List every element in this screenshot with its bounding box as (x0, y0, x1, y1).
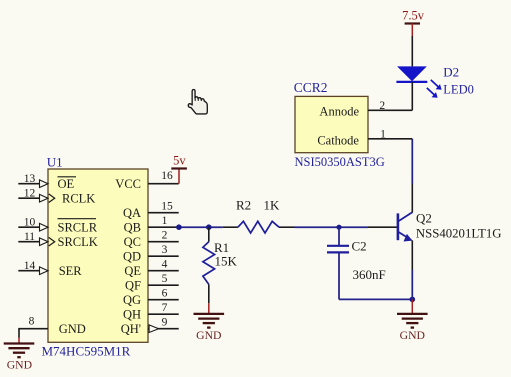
svg-text:Cathode: Cathode (317, 134, 359, 148)
svg-text:1: 1 (380, 129, 386, 141)
Q2 designator label (416, 210, 432, 225)
U1 pin 8 GND (18, 315, 85, 336)
svg-text:15: 15 (161, 201, 173, 213)
svg-text:QD: QD (123, 250, 141, 264)
svg-text:QG: QG (123, 293, 141, 307)
U1 pin 11 SRCLK (clock input) (18, 231, 97, 249)
power port 5v at U1 VCC (171, 153, 187, 183)
svg-text:QA: QA (123, 206, 141, 220)
svg-text:3: 3 (162, 244, 168, 256)
resistor R2 (223, 221, 295, 233)
svg-text:QH: QH (123, 308, 141, 322)
svg-text:9: 9 (162, 317, 168, 329)
transistor Q2 (NPN) (368, 184, 412, 271)
U1 pin 6 QG (123, 288, 179, 308)
svg-text:R2: R2 (236, 198, 251, 213)
svg-text:VCC: VCC (115, 177, 141, 191)
U1 reference designator (47, 154, 63, 169)
svg-text:SRCLK: SRCLK (58, 235, 98, 249)
svg-text:8: 8 (29, 315, 35, 327)
svg-text:QH': QH' (121, 322, 141, 336)
svg-text:2: 2 (162, 230, 168, 242)
wire C2 bottom to Q2 emitter (339, 298, 412, 300)
svg-text:7: 7 (162, 302, 168, 314)
R1 value 15K (215, 254, 238, 269)
U1 pin 16 VCC (115, 170, 178, 191)
U1 pin 3 QD (123, 244, 179, 264)
C2 designator label (352, 238, 367, 253)
resistor R1 (203, 227, 215, 303)
svg-text:14: 14 (24, 260, 36, 272)
ground symbol at U1 pin 8 (4, 329, 35, 372)
svg-text:GND: GND (7, 359, 32, 372)
U1 pin 15 QA (123, 201, 179, 221)
svg-text:15K: 15K (215, 254, 238, 269)
U1 pin 14 SER (18, 260, 82, 278)
CCR2 body (295, 96, 368, 152)
wire Q2 emitter to ground junction (411, 270, 413, 299)
U1 pin 12 RCLK (clock input) (18, 188, 95, 206)
svg-text:12: 12 (24, 188, 36, 200)
CCR2 pin 1 Cathode (317, 129, 412, 148)
svg-text:NSI50350AST3G: NSI50350AST3G (295, 155, 385, 169)
IC U1 body (48, 169, 148, 342)
wire 7.5v to LED anode (411, 36, 413, 66)
junction dot at QB pin (176, 224, 182, 230)
svg-text:OE: OE (58, 177, 75, 191)
svg-text:13: 13 (24, 173, 36, 185)
svg-text:4: 4 (162, 259, 168, 271)
wire LED cathode to CCR2 pin 2 (411, 82, 413, 110)
junction dot at Q2 emitter / ground (410, 297, 416, 303)
U1 part number M74HC595M1R (42, 344, 131, 359)
svg-text:2: 2 (379, 100, 385, 112)
svg-text:16: 16 (161, 170, 173, 182)
LED D2 (396, 66, 427, 82)
wire QB to R2 (179, 226, 223, 228)
wire R2 to Q2 base (295, 226, 369, 228)
U1 pin 10 SRCLR (18, 217, 97, 235)
ground symbol at Q2 emitter (397, 299, 428, 342)
svg-text:R1: R1 (214, 240, 229, 255)
U1 pin 1 QB (124, 215, 179, 235)
svg-text:7.5v: 7.5v (402, 8, 425, 22)
svg-text:5v: 5v (173, 153, 186, 167)
junction dot at C2 top (336, 225, 341, 230)
CCR2 reference designator (294, 80, 328, 95)
U1 pin 4 QE (124, 259, 178, 279)
svg-text:NSS40201LT1G: NSS40201LT1G (416, 226, 502, 240)
svg-text:GND: GND (59, 322, 86, 336)
svg-text:RCLK: RCLK (62, 192, 95, 206)
svg-text:D2: D2 (443, 65, 459, 80)
R1 designator label (214, 240, 229, 255)
svg-text:QC: QC (124, 235, 141, 249)
mouse cursor (hand pointer) (188, 90, 207, 114)
svg-text:QE: QE (124, 264, 141, 278)
LED emission arrows (427, 80, 442, 98)
svg-text:GND: GND (400, 329, 425, 342)
power port 7.5v (402, 8, 425, 36)
C2 value 360nF (353, 267, 386, 282)
svg-text:6: 6 (162, 288, 168, 300)
D2 designator label (443, 65, 459, 80)
U1 pin 2 QC (124, 230, 179, 250)
svg-text:M74HC595M1R: M74HC595M1R (42, 344, 131, 359)
Q2 part number NSS40201LT1G (416, 226, 502, 240)
D2 comment LED0 (443, 83, 474, 97)
svg-text:QB: QB (124, 221, 141, 235)
svg-text:5: 5 (162, 273, 168, 285)
CCR2 part number NSI50350AST3G (295, 155, 385, 169)
CCR2 pin 2 Annode (319, 100, 412, 118)
ground symbol at R1 (194, 303, 225, 342)
svg-text:Annode: Annode (319, 105, 359, 119)
U1 pin 7 QH (123, 302, 179, 322)
junction dot at R1 top (206, 224, 212, 230)
wire CCR2 pin1 to Q2 collector (411, 139, 413, 184)
U1 pin 9 QH' (output arrow) (121, 317, 179, 337)
R2 value 1K (264, 198, 281, 213)
svg-text:360nF: 360nF (353, 267, 386, 282)
svg-text:Q2: Q2 (416, 210, 432, 225)
U1 pin 13 OE (18, 173, 76, 191)
svg-text:10: 10 (24, 217, 36, 229)
svg-text:SER: SER (59, 264, 83, 278)
svg-text:CCR2: CCR2 (294, 80, 328, 95)
svg-text:U1: U1 (47, 154, 63, 169)
svg-text:LED0: LED0 (443, 83, 474, 97)
svg-text:GND: GND (196, 329, 221, 342)
R2 designator label (236, 198, 251, 213)
svg-text:C2: C2 (352, 238, 367, 253)
svg-text:QF: QF (125, 279, 141, 293)
capacitor C2 (327, 227, 349, 299)
svg-text:SRCLR: SRCLR (58, 221, 98, 235)
U1 pin 5 QF (125, 273, 179, 293)
svg-text:1: 1 (162, 215, 168, 227)
svg-text:1K: 1K (264, 198, 281, 213)
svg-text:11: 11 (24, 231, 35, 243)
